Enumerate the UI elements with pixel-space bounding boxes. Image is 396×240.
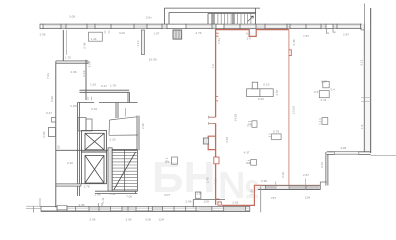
svg-text:3.15м: 3.15м xyxy=(70,104,78,108)
svg-text:2.78: 2.78 xyxy=(84,185,90,189)
svg-text:2.95: 2.95 xyxy=(261,179,267,183)
svg-text:0.57: 0.57 xyxy=(321,80,327,84)
svg-text:4.25: 4.25 xyxy=(87,61,91,67)
svg-text:1.78: 1.78 xyxy=(110,84,116,88)
svg-text:2.87: 2.87 xyxy=(343,33,349,37)
svg-text:ПН: ПН xyxy=(271,196,275,200)
svg-text:4.33: 4.33 xyxy=(225,137,229,143)
svg-text:3.07: 3.07 xyxy=(164,193,170,197)
svg-text:2.76: 2.76 xyxy=(196,31,202,35)
svg-text:0.47: 0.47 xyxy=(46,111,52,115)
svg-text:2.57: 2.57 xyxy=(275,89,279,95)
svg-text:7.6: 7.6 xyxy=(211,64,215,69)
svg-text:2.95: 2.95 xyxy=(40,33,46,37)
svg-text:2.96: 2.96 xyxy=(71,70,77,74)
svg-text:2.96: 2.96 xyxy=(186,200,192,204)
svg-text:2.87: 2.87 xyxy=(303,173,309,177)
svg-text:4.37: 4.37 xyxy=(244,150,250,154)
svg-text:0.5: 0.5 xyxy=(246,32,251,36)
svg-text:3.06: 3.06 xyxy=(126,218,132,222)
svg-text:2.39: 2.39 xyxy=(258,97,264,101)
svg-text:7.87: 7.87 xyxy=(303,34,309,38)
svg-text:1.11: 1.11 xyxy=(110,192,116,196)
svg-text:2.16: 2.16 xyxy=(281,172,285,178)
svg-text:1.4: 1.4 xyxy=(247,37,252,41)
svg-text:3.28: 3.28 xyxy=(340,146,346,150)
svg-text:3.03: 3.03 xyxy=(232,201,238,205)
svg-text:7.06: 7.06 xyxy=(126,195,132,199)
svg-text:1.06: 1.06 xyxy=(94,192,100,196)
svg-text:3.08: 3.08 xyxy=(69,15,75,19)
svg-text:4.53: 4.53 xyxy=(57,145,61,151)
svg-text:2.48: 2.48 xyxy=(83,42,87,48)
svg-text:1.41: 1.41 xyxy=(101,197,105,203)
svg-text:2.41: 2.41 xyxy=(321,98,327,102)
svg-text:12Н: 12Н xyxy=(305,196,311,200)
svg-text:1.9: 1.9 xyxy=(196,192,201,196)
svg-text:16.99: 16.99 xyxy=(149,58,157,62)
svg-text:2.19: 2.19 xyxy=(82,70,86,76)
svg-text:10.09: 10.09 xyxy=(292,106,296,114)
svg-text:12Н: 12Н xyxy=(159,218,165,222)
svg-text:1.63: 1.63 xyxy=(90,83,96,87)
svg-text:2.85: 2.85 xyxy=(79,203,85,207)
svg-text:1.76: 1.76 xyxy=(65,56,71,60)
svg-text:0.5×: 0.5× xyxy=(146,16,152,20)
svg-text:1.97: 1.97 xyxy=(154,32,160,36)
svg-text:3.19: 3.19 xyxy=(91,107,97,111)
svg-text:7.61: 7.61 xyxy=(46,73,50,79)
svg-text:1.44: 1.44 xyxy=(91,37,97,41)
svg-text:3.15: 3.15 xyxy=(359,59,363,65)
svg-text:7.61: 7.61 xyxy=(213,178,217,184)
svg-text:3.06: 3.06 xyxy=(90,218,96,222)
svg-text:3.76: 3.76 xyxy=(320,162,324,168)
svg-text:0.82: 0.82 xyxy=(42,131,46,137)
svg-text:2.32: 2.32 xyxy=(67,161,73,165)
svg-text:0.79: 0.79 xyxy=(273,129,279,133)
svg-text:1.45: 1.45 xyxy=(206,177,210,183)
svg-text:1.8: 1.8 xyxy=(360,124,364,129)
svg-text:2.38: 2.38 xyxy=(292,39,296,45)
svg-text:12Н: 12Н xyxy=(204,200,210,204)
svg-text:14.82: 14.82 xyxy=(234,113,238,121)
svg-text:2.40: 2.40 xyxy=(141,123,145,129)
svg-text:0.5: 0.5 xyxy=(165,160,170,164)
svg-text:2.20: 2.20 xyxy=(110,138,116,142)
svg-text:1.10: 1.10 xyxy=(136,40,140,46)
svg-text:0.47: 0.47 xyxy=(101,84,107,88)
svg-text:0.4: 0.4 xyxy=(331,88,336,92)
svg-text:1.60: 1.60 xyxy=(250,189,254,195)
svg-text:0.19: 0.19 xyxy=(263,83,269,87)
svg-text:3.06: 3.06 xyxy=(145,218,151,222)
svg-text:3.92: 3.92 xyxy=(50,96,54,102)
svg-text:0.5: 0.5 xyxy=(314,90,319,94)
svg-text:7.61: 7.61 xyxy=(217,38,221,44)
svg-text:3.02: 3.02 xyxy=(119,31,125,35)
